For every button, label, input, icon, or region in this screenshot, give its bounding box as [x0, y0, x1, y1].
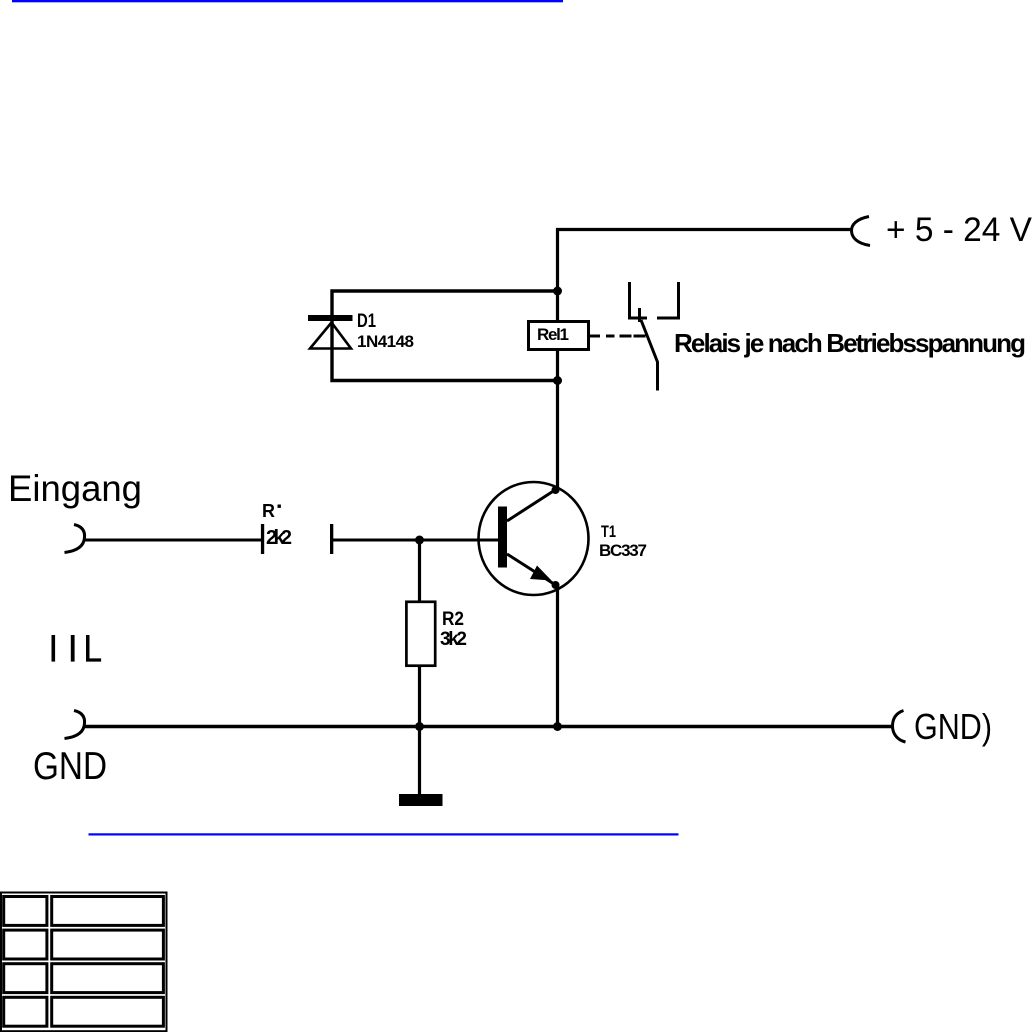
wire: emitter to ground rail	[556, 584, 559, 727]
node: junction diode bottom / collector	[553, 376, 562, 385]
title block cell r4c2	[52, 997, 164, 1026]
svg-text:GND): GND)	[914, 706, 992, 747]
label R1 dot	[278, 505, 281, 508]
title block cell r1c2	[52, 897, 164, 926]
wire: R1 to base, junction to R2	[333, 539, 498, 542]
title block cell r2c1	[4, 930, 47, 959]
node: junction supply/diode top	[553, 287, 562, 296]
svg-text:R: R	[262, 501, 275, 521]
node: emitter meets circle	[552, 581, 560, 589]
top blue horizontal rule	[12, 0, 563, 2]
node: base junction	[415, 536, 424, 545]
svg-text:BC337: BC337	[599, 541, 647, 560]
dashed mechanical link to contact	[606, 335, 646, 338]
wire: R2 to ground rail	[418, 666, 421, 727]
svg-text:Relais je nach Betriebsspannun: Relais je nach Betriebsspannung	[674, 328, 1026, 358]
diode D1 triangle (anode, pointing up)	[310, 323, 351, 349]
wire: rail junction down to ground symbol	[418, 727, 421, 795]
label TTL (degraded T crossbars)	[52, 635, 102, 662]
svg-text:2k2: 2k2	[266, 527, 292, 549]
transistor T1 emitter diagonal	[507, 554, 554, 584]
resistor R1 right plate	[330, 524, 333, 554]
resistor R1 left plate	[261, 524, 264, 554]
relay contact movable arm	[641, 320, 658, 391]
svg-text:R2: R2	[442, 609, 464, 630]
title block table outer frame	[1, 893, 167, 1032]
svg-text:3k2: 3k2	[440, 629, 467, 650]
resistor R2 (box)	[406, 602, 435, 666]
wire: ground rail	[85, 725, 894, 728]
wire: stub from relay box to dashed link	[590, 335, 600, 338]
svg-text:Eingang: Eingang	[8, 468, 142, 509]
relay contact fixed terminal right	[657, 282, 679, 318]
svg-text:1N4148: 1N4148	[357, 332, 414, 351]
relay coil Rel1 (box)	[529, 322, 589, 350]
wire: diode branch top (D1 cathode to supply net), junction at right	[332, 291, 558, 381]
svg-text:+ 5 - 24 V: + 5 - 24 V	[886, 211, 1032, 249]
diode D1 cathode bar	[308, 315, 353, 321]
svg-text:T1: T1	[601, 522, 616, 541]
transistor T1 base bar	[498, 507, 507, 568]
svg-text:D1: D1	[357, 311, 376, 332]
title block cell r3c2	[52, 964, 164, 993]
terminal Eingang (open pad arc)	[65, 525, 85, 553]
title block cell r1c1	[4, 897, 47, 926]
relay contact pivot tick	[638, 308, 641, 322]
title block cell r2c2	[52, 930, 164, 959]
title block cell r3c1	[4, 964, 47, 993]
bottom blue horizontal rule	[89, 833, 679, 835]
node: R2/ground rail junction	[415, 722, 424, 731]
wire: +5-24V supply rail from terminal to collector vertical	[558, 230, 853, 493]
wire: base junction down to R2	[418, 540, 421, 601]
transistor T1 circle	[479, 482, 589, 595]
terminal GND left (open pad arc)	[65, 711, 85, 739]
wire: input to R1	[85, 539, 262, 542]
node: collector meets circle	[552, 486, 560, 494]
ground symbol (filled bar)	[399, 794, 443, 806]
svg-text:Rel1: Rel1	[537, 325, 569, 344]
svg-text:GND: GND	[33, 745, 107, 788]
node: emitter/ground rail junction	[553, 722, 562, 731]
title block cell r4c1	[4, 997, 47, 1026]
transistor T1 collector diagonal	[507, 490, 555, 521]
terminal +5-24V (open pad arc)	[852, 217, 871, 246]
relay contact fixed terminal left	[630, 282, 648, 318]
terminal GND right (open pad arc)	[893, 711, 906, 743]
transistor T1 emitter arrow	[530, 566, 552, 581]
